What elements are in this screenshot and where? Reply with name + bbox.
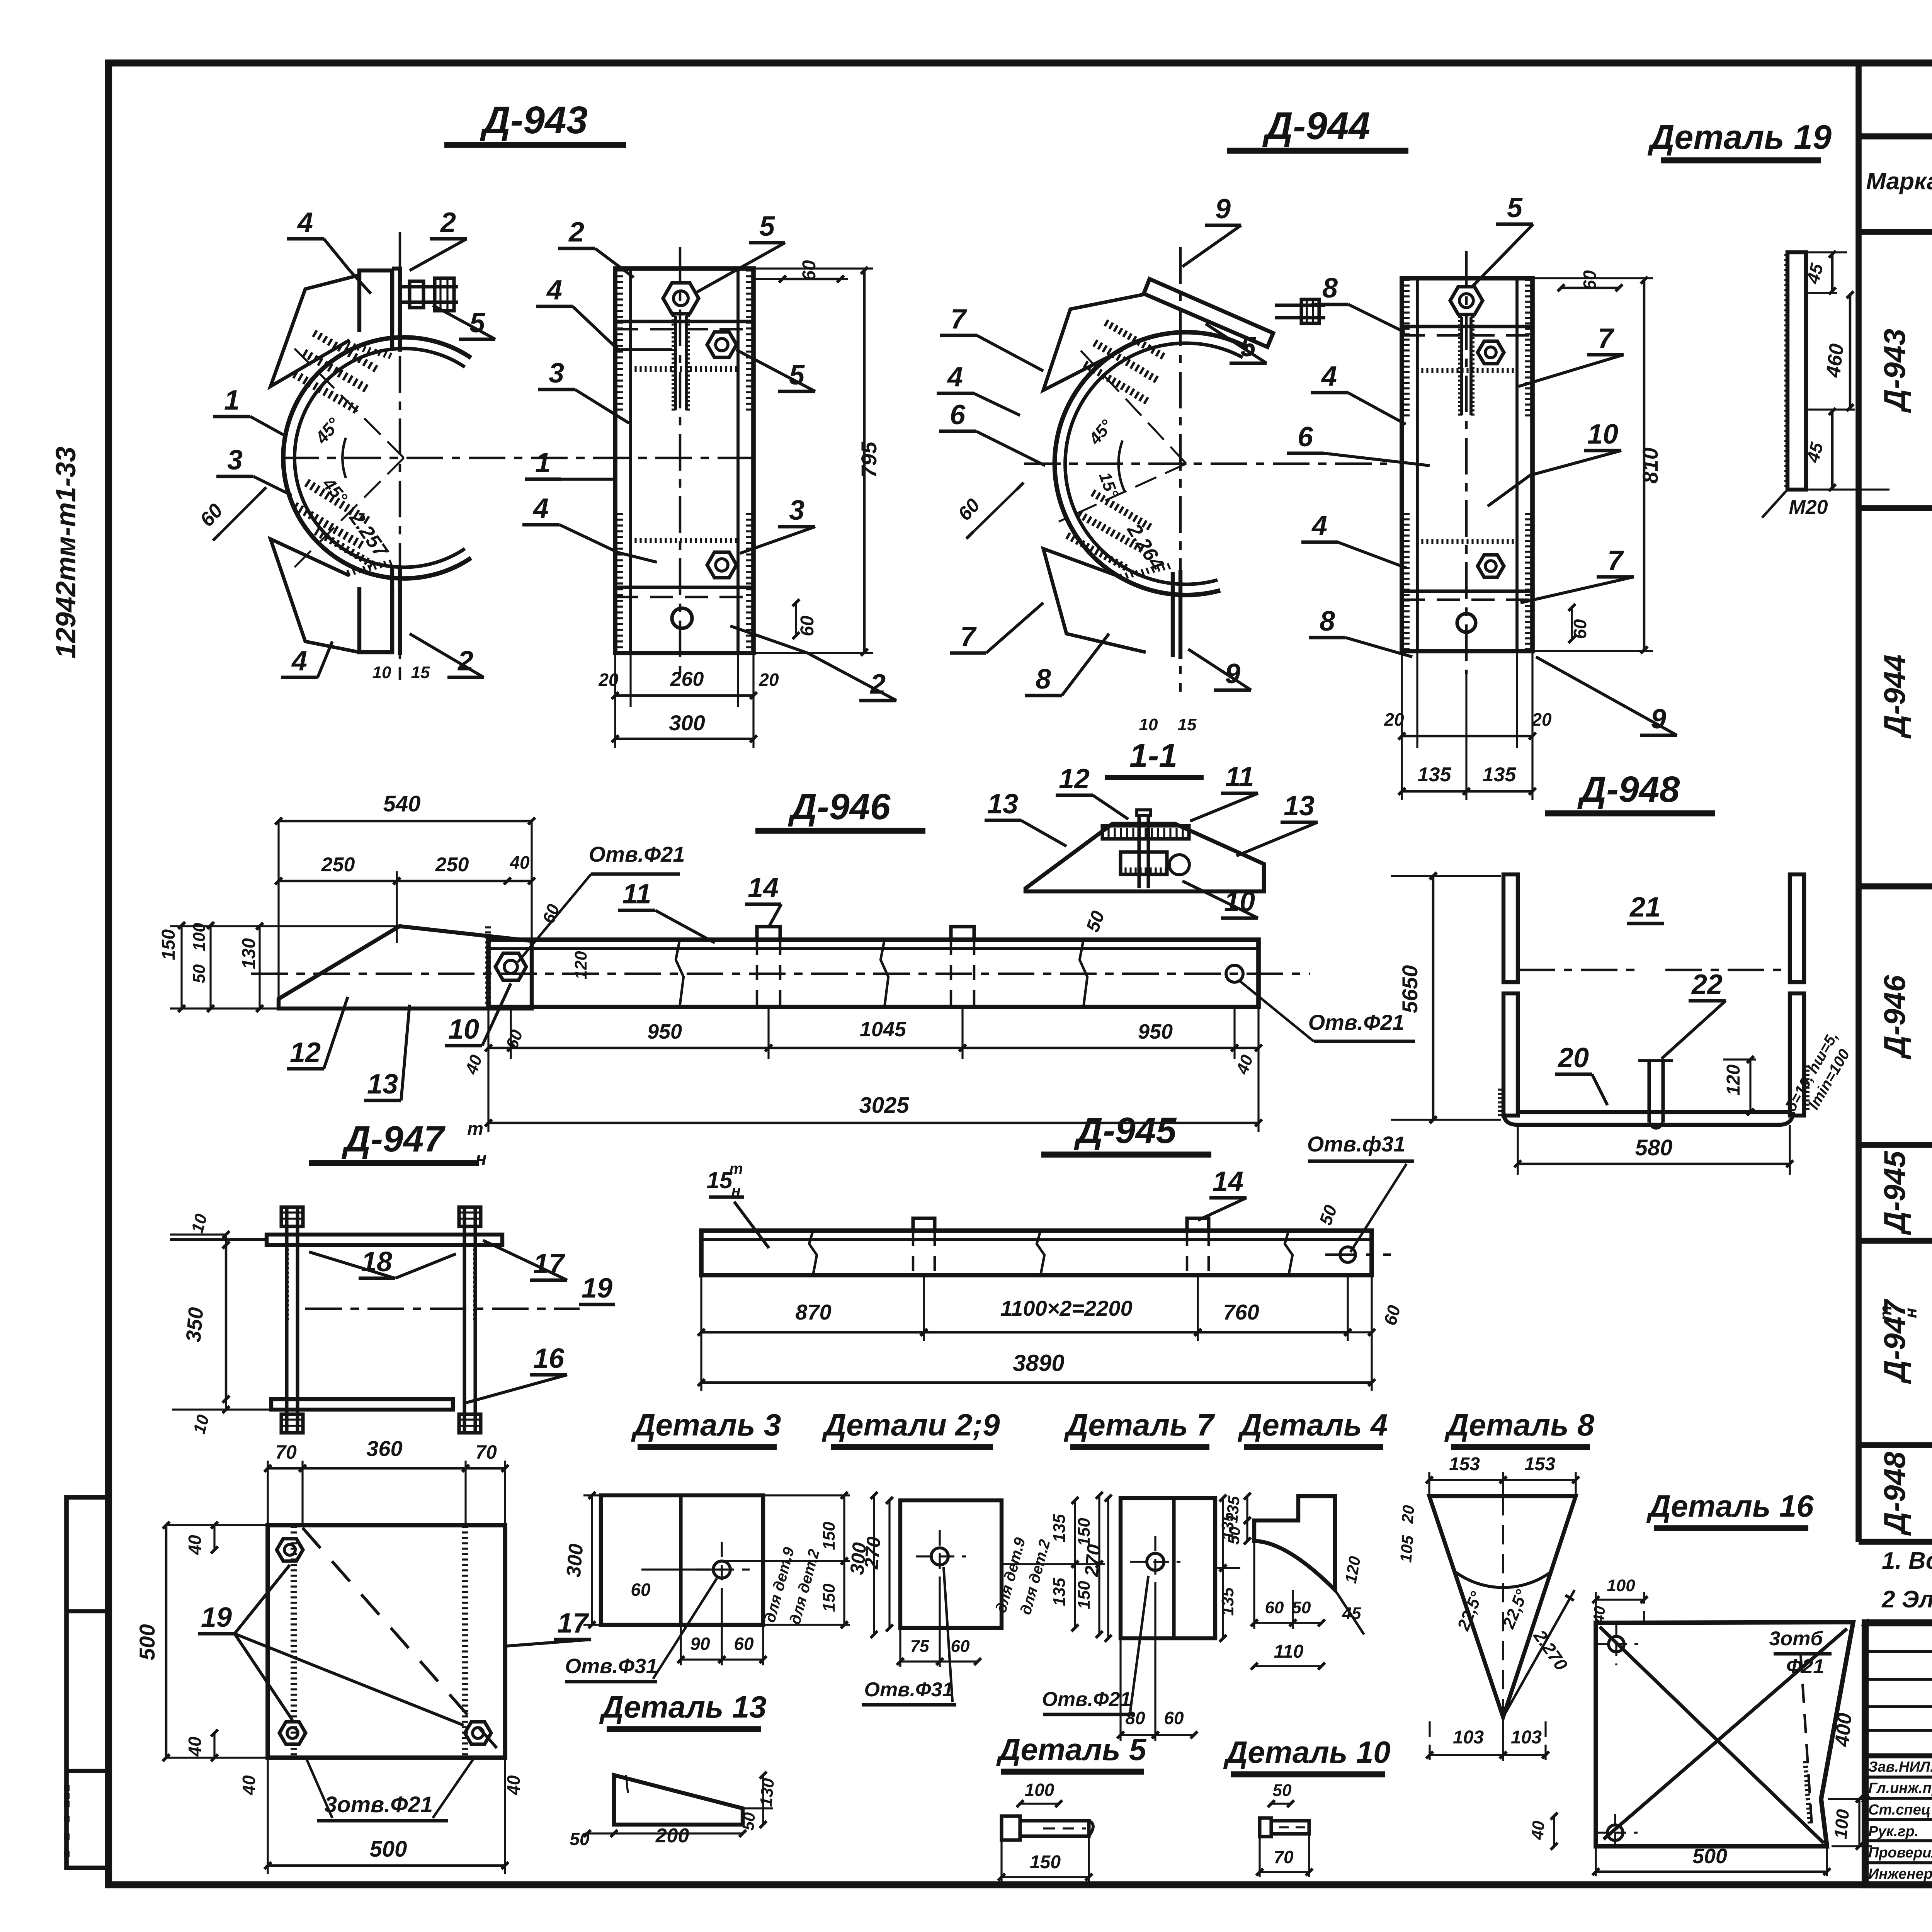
svg-text:8: 8 (1322, 273, 1338, 304)
svg-text:60: 60 (734, 1634, 754, 1654)
svg-text:580: 580 (1635, 1135, 1673, 1160)
svg-text:950: 950 (1138, 1020, 1173, 1043)
svg-text:100: 100 (1830, 1808, 1853, 1840)
svg-text:4: 4 (297, 207, 313, 238)
view Д-946 dim chain below (487, 1009, 489, 1059)
square plate dashed diagonal (303, 1528, 502, 1754)
svg-text:135: 135 (1050, 1578, 1069, 1606)
view Д-945 angle bar (701, 1231, 1372, 1275)
left margin perforation dots (64, 1785, 70, 1791)
svg-text:4: 4 (947, 362, 963, 393)
detail 16 bolt holes (1609, 1636, 1624, 1652)
svg-text:795: 795 (857, 441, 881, 478)
svg-text:Отв.Ф21: Отв.Ф21 (1308, 1010, 1405, 1034)
svg-text:40: 40 (1590, 1605, 1609, 1624)
svg-text:760: 760 (1223, 1300, 1259, 1324)
svg-text:Деталь 19: Деталь 19 (1647, 118, 1832, 156)
svg-text:14: 14 (748, 872, 779, 903)
detail 4 gusset with arc (1254, 1496, 1335, 1590)
view Д-943 front view side weld bands (617, 270, 623, 410)
svg-text:60: 60 (1265, 1598, 1284, 1617)
svg-text:2 Электроды типа Э42 А, ГОСТ: 2 Электроды типа Э42 А, ГОСТ 9467-75. (1881, 1586, 1932, 1613)
svg-text:Деталь 4: Деталь 4 (1238, 1408, 1388, 1442)
svg-text:540: 540 (383, 791, 421, 816)
svg-text:40: 40 (185, 1736, 205, 1757)
svg-text:40: 40 (239, 1775, 259, 1796)
svg-text:105: 105 (1396, 1534, 1417, 1563)
svg-text:Рук.гр.: Рук.гр. (1868, 1823, 1918, 1840)
svg-text:Деталь 7: Деталь 7 (1064, 1408, 1215, 1442)
svg-text:13: 13 (367, 1069, 398, 1100)
svg-text:Деталь 10: Деталь 10 (1223, 1735, 1390, 1769)
svg-text:т: т (729, 1160, 743, 1177)
svg-text:50: 50 (739, 1811, 759, 1831)
view Д-943 dims right (782, 278, 840, 281)
svg-text:120: 120 (571, 951, 590, 980)
svg-text:20: 20 (1557, 1043, 1589, 1073)
svg-text:70: 70 (275, 1441, 297, 1463)
detail 19 thin plate (1787, 252, 1806, 490)
svg-text:Отв.Ф21: Отв.Ф21 (1042, 1688, 1131, 1711)
view Д-943 centerlines (282, 457, 753, 459)
view Д-948 middle rod part 22 (1647, 1061, 1651, 1122)
svg-text:500: 500 (1692, 1845, 1727, 1868)
svg-text:60: 60 (1580, 270, 1600, 290)
svg-text:Д-946: Д-946 (1878, 975, 1912, 1060)
view Д-944 front view plate (1402, 278, 1532, 651)
svg-text:н: н (1901, 1308, 1920, 1318)
svg-text:8: 8 (1320, 606, 1335, 637)
detail 8 bottom dims (1430, 1754, 1503, 1756)
svg-text:Д-946: Д-946 (788, 786, 891, 827)
svg-text:103: 103 (1453, 1727, 1484, 1748)
square plate left dims (165, 1525, 168, 1758)
detail 8 top dims (1429, 1479, 1503, 1481)
svg-text:4: 4 (1311, 510, 1327, 541)
svg-text:50: 50 (1273, 1781, 1292, 1800)
svg-text:3: 3 (789, 495, 804, 526)
svg-text:Д-943: Д-943 (1878, 329, 1912, 413)
svg-text:135: 135 (1218, 1587, 1237, 1616)
svg-text:Отв.ф31: Отв.ф31 (1307, 1132, 1406, 1156)
svg-text:50: 50 (1292, 1598, 1311, 1617)
svg-text:14: 14 (1213, 1166, 1243, 1197)
svg-text:Ф21: Ф21 (1786, 1655, 1824, 1678)
svg-text:6: 6 (1298, 422, 1313, 452)
svg-text:11: 11 (1225, 762, 1254, 793)
view Д-945 end hole (1340, 1247, 1355, 1262)
square plate top dims (267, 1461, 269, 1525)
svg-text:22: 22 (1691, 969, 1723, 1000)
svg-text:8: 8 (1036, 664, 1051, 695)
view Д-947 top plate (267, 1235, 502, 1245)
svg-text:2: 2 (457, 646, 473, 677)
title block (1865, 1623, 1932, 1885)
svg-text:н: н (476, 1149, 487, 1169)
detail 19 dims (1808, 251, 1847, 253)
view Д-946 dims above (279, 820, 532, 823)
svg-text:20: 20 (759, 670, 779, 690)
section 1-1 top pad hatched (1102, 826, 1189, 839)
svg-text:130: 130 (757, 1777, 778, 1808)
svg-text:Д-945: Д-945 (1878, 1150, 1912, 1235)
svg-text:135: 135 (1418, 764, 1452, 786)
svg-text:Проверил: Проверил (1868, 1845, 1932, 1861)
detail 16 diagonals (1600, 1627, 1824, 1843)
svg-text:90: 90 (690, 1634, 710, 1654)
svg-text:270: 270 (1080, 1543, 1105, 1578)
svg-text:810: 810 (1638, 447, 1662, 483)
svg-text:Ст.спец: Ст.спец (1868, 1802, 1930, 1818)
view Д-946 centerline (251, 973, 1310, 975)
svg-text:1: 1 (224, 385, 240, 416)
svg-text:19: 19 (582, 1273, 612, 1304)
svg-text:3: 3 (227, 445, 243, 476)
svg-text:15: 15 (411, 663, 430, 682)
svg-text:135: 135 (1483, 764, 1517, 786)
svg-text:153: 153 (1524, 1454, 1555, 1475)
svg-text:19: 19 (201, 1602, 232, 1633)
view Д-943 front view centerline (679, 247, 682, 674)
svg-text:4: 4 (532, 493, 549, 524)
svg-text:Деталь 3: Деталь 3 (631, 1408, 781, 1442)
svg-text:Марка: Марка (1866, 168, 1932, 195)
view Д-946 main angle bar (488, 940, 1259, 1007)
svg-text:60: 60 (1570, 619, 1590, 639)
svg-text:13: 13 (1284, 791, 1315, 821)
view Д-945 bolt tabs (913, 1218, 935, 1231)
svg-text:1045: 1045 (860, 1018, 906, 1041)
svg-text:Детали 2;9: Детали 2;9 (821, 1408, 1000, 1442)
svg-text:Зав.НИЛ.Э: Зав.НИЛ.Э (1868, 1759, 1932, 1775)
svg-text:950: 950 (647, 1020, 682, 1043)
view Д-944 top gusset (1043, 294, 1144, 390)
svg-text:20: 20 (1531, 709, 1552, 730)
svg-text:Деталь 16: Деталь 16 (1646, 1489, 1814, 1523)
svg-text:1: 1 (535, 447, 551, 478)
svg-text:260: 260 (670, 668, 704, 690)
svg-text:3: 3 (549, 358, 564, 389)
view Д-943 weld hatch patch lower-left (294, 503, 363, 548)
svg-text:150: 150 (1030, 1852, 1061, 1872)
svg-text:40: 40 (503, 1775, 524, 1796)
square plate 500x500 plan view (268, 1525, 505, 1758)
svg-text:100: 100 (1025, 1780, 1054, 1800)
svg-text:Отв.Ф21: Отв.Ф21 (589, 842, 685, 866)
svg-text:350: 350 (182, 1306, 208, 1343)
view Д-943 weld hatch patch upper-left (303, 350, 367, 392)
svg-text:300: 300 (562, 1543, 587, 1578)
svg-text:100: 100 (1607, 1576, 1635, 1595)
svg-text:3890: 3890 (1013, 1350, 1064, 1376)
left margin vertical edge line (65, 1497, 68, 1870)
view Д-943 top gusset (270, 275, 359, 386)
detail 16 third hole leader (1801, 1654, 1812, 1832)
square plate weld strips (291, 1527, 297, 1754)
detail 13 wedge (614, 1775, 743, 1825)
svg-text:Д-947: Д-947 (342, 1119, 446, 1160)
svg-text:20: 20 (1384, 709, 1404, 730)
svg-text:500: 500 (135, 1624, 159, 1660)
svg-text:40: 40 (509, 852, 530, 872)
view Д-944 centerlines (1024, 463, 1387, 465)
svg-text:4: 4 (1321, 361, 1337, 392)
svg-text:9: 9 (1215, 194, 1231, 224)
svg-text:75: 75 (910, 1637, 929, 1656)
svg-text:20: 20 (1398, 1504, 1418, 1524)
view Д-944 front top band (1402, 325, 1532, 328)
svg-text:460: 460 (1822, 342, 1848, 379)
svg-text:1100×2=2200: 1100×2=2200 (1000, 1296, 1133, 1320)
svg-text:Д-948: Д-948 (1577, 769, 1680, 810)
view Д-946 left wedge piece (279, 926, 532, 1009)
svg-text:110: 110 (1274, 1641, 1304, 1662)
details 2;9 plate (900, 1500, 1002, 1628)
view Д-944 bottom plate (1043, 549, 1146, 652)
svg-text:5: 5 (759, 211, 775, 242)
svg-text:50: 50 (1224, 1526, 1244, 1545)
svg-text:Д-944: Д-944 (1878, 655, 1912, 739)
svg-text:12942тм-т1-33: 12942тм-т1-33 (51, 447, 82, 659)
view Д-944 half-ring (1054, 332, 1248, 595)
section 1-1 saddle plate (1026, 824, 1264, 891)
svg-text:10: 10 (1587, 419, 1618, 450)
view Д-943 front view bolt with rod (663, 283, 699, 314)
svg-text:4: 4 (291, 646, 307, 677)
svg-text:1. Все швы h-6мм, кроме огов: 1. Все швы h-6мм, кроме оговоренных (1882, 1548, 1932, 1574)
svg-text:80: 80 (1125, 1708, 1145, 1728)
view Д-944 top plate with bolt (1144, 279, 1273, 347)
view Д-947 left stud (285, 1207, 288, 1431)
svg-text:7: 7 (951, 304, 967, 335)
view Д-944 dims right (1561, 287, 1619, 289)
svg-text:2: 2 (440, 207, 456, 238)
view Д-943 front view lower symmetric part (631, 538, 736, 543)
svg-text:13: 13 (987, 789, 1018, 820)
view Д-944 front lower part (1417, 539, 1513, 544)
svg-text:150: 150 (158, 929, 179, 960)
view Д-948 bottom dim 580 (1517, 1125, 1519, 1175)
svg-text:20: 20 (598, 670, 619, 690)
svg-text:400: 400 (1831, 1712, 1856, 1748)
view Д-946 end bolt and hole (495, 953, 526, 980)
detail 8 fan plate (1429, 1496, 1576, 1717)
svg-text:6: 6 (950, 400, 966, 430)
svg-text:150: 150 (820, 1583, 838, 1612)
svg-text:40: 40 (185, 1535, 205, 1555)
svg-text:50: 50 (570, 1829, 590, 1849)
view Д-943 top clamp plate and bolt (359, 270, 392, 332)
view Д-946 break marks (676, 940, 684, 1007)
svg-text:3025: 3025 (859, 1093, 909, 1118)
detail 10 bolt (1260, 1818, 1271, 1837)
svg-text:т: т (467, 1118, 483, 1139)
view Д-948 bent rebar U-shape (1503, 874, 1518, 982)
svg-text:17: 17 (557, 1608, 589, 1639)
svg-text:300: 300 (669, 711, 705, 735)
svg-text:М20: М20 (1789, 496, 1828, 519)
detail 3 plate (601, 1495, 763, 1625)
svg-text:9: 9 (1651, 704, 1666, 735)
svg-text:130: 130 (239, 938, 259, 969)
svg-text:17: 17 (533, 1248, 565, 1279)
svg-text:Отв.Ф31: Отв.Ф31 (565, 1655, 658, 1678)
svg-text:Д-944: Д-944 (1262, 104, 1370, 148)
left margin stamp boxes (66, 1497, 108, 1868)
svg-text:250: 250 (321, 854, 355, 876)
svg-text:150: 150 (1075, 1518, 1094, 1546)
detail 16 top dims (1596, 1599, 1644, 1600)
svg-text:870: 870 (795, 1300, 831, 1324)
detail 10 dims (1271, 1803, 1291, 1804)
svg-text:Деталь 13: Деталь 13 (599, 1690, 766, 1724)
section 1-1 stud and nuts (1137, 815, 1141, 888)
svg-text:Деталь 8: Деталь 8 (1444, 1408, 1595, 1442)
svg-text:Д-943: Д-943 (480, 99, 588, 142)
detail 5 bolt (1002, 1816, 1020, 1840)
view Д-943 front view plate (615, 269, 753, 653)
detail 5 dims (1020, 1803, 1059, 1804)
detail 16 plate pentagon (1596, 1622, 1853, 1846)
view Д-947 right stud (463, 1207, 466, 1431)
svg-text:135: 135 (1050, 1514, 1069, 1543)
svg-text:Отв.Ф31: Отв.Ф31 (864, 1679, 954, 1701)
svg-text:Инженер: Инженер (1868, 1866, 1932, 1882)
svg-text:250: 250 (435, 854, 469, 876)
svg-text:1-1: 1-1 (1129, 737, 1177, 774)
svg-text:2: 2 (568, 217, 584, 248)
view Д-946 bolt tabs part 14 (757, 927, 780, 940)
square plate bolts (277, 1539, 303, 1561)
svg-text:153: 153 (1449, 1454, 1480, 1475)
svg-text:Гл.инж.пр: Гл.инж.пр (1868, 1780, 1932, 1796)
svg-text:3отв.Ф21: 3отв.Ф21 (325, 1792, 433, 1817)
svg-text:60: 60 (1164, 1708, 1184, 1728)
svg-text:103: 103 (1511, 1727, 1542, 1748)
svg-text:200: 200 (655, 1825, 689, 1847)
svg-text:150: 150 (820, 1522, 838, 1550)
svg-text:7: 7 (1598, 323, 1614, 354)
svg-text:7: 7 (960, 621, 977, 652)
svg-text:150: 150 (1075, 1581, 1094, 1609)
svg-text:120: 120 (1723, 1065, 1744, 1095)
svg-text:60: 60 (799, 260, 820, 281)
svg-text:10: 10 (372, 663, 391, 682)
svg-text:5650: 5650 (1398, 965, 1422, 1014)
view Д-947 bottom plate (271, 1399, 453, 1410)
svg-text:3отб: 3отб (1769, 1628, 1823, 1650)
view Д-943 half-ring clamp (283, 337, 471, 578)
svg-text:4: 4 (546, 275, 562, 306)
svg-text:60: 60 (631, 1580, 651, 1600)
view Д-948 dims (1432, 876, 1435, 1120)
view Д-943 dims bottom (614, 653, 616, 707)
svg-text:60: 60 (951, 1637, 970, 1656)
svg-text:10: 10 (1139, 715, 1158, 734)
svg-text:т: т (1876, 1305, 1895, 1320)
svg-text:135: 135 (1223, 1495, 1243, 1524)
svg-text:12: 12 (1059, 764, 1090, 794)
svg-text:Деталь 5: Деталь 5 (996, 1732, 1147, 1767)
svg-text:15: 15 (1178, 715, 1197, 734)
svg-text:12: 12 (290, 1037, 321, 1068)
view Д-943 45deg construction lines (292, 346, 404, 458)
svg-text:70: 70 (475, 1441, 497, 1463)
svg-text:300: 300 (846, 1541, 871, 1575)
svg-text:360: 360 (366, 1436, 402, 1461)
svg-text:Д-945: Д-945 (1074, 1110, 1177, 1151)
view Д-943 front view top plate band (615, 320, 753, 323)
detail 7 plate (1121, 1498, 1215, 1638)
svg-text:70: 70 (1274, 1847, 1294, 1867)
view Д-944 dims bottom (1401, 651, 1403, 748)
svg-text:Д-948: Д-948 (1878, 1451, 1912, 1536)
table outer and header lines (1855, 63, 1862, 1542)
svg-text:40: 40 (1528, 1820, 1548, 1841)
svg-text:21: 21 (1629, 892, 1661, 923)
svg-text:500: 500 (370, 1837, 407, 1862)
svg-text:5: 5 (1507, 192, 1523, 223)
view Д-945 dim chain (700, 1275, 702, 1341)
view Д-943 lower clamp plate (270, 539, 359, 652)
svg-text:7: 7 (1607, 545, 1624, 576)
svg-text:11: 11 (622, 879, 651, 910)
svg-text:16: 16 (533, 1343, 565, 1374)
svg-text:10: 10 (448, 1014, 479, 1045)
svg-text:50: 50 (190, 964, 209, 983)
